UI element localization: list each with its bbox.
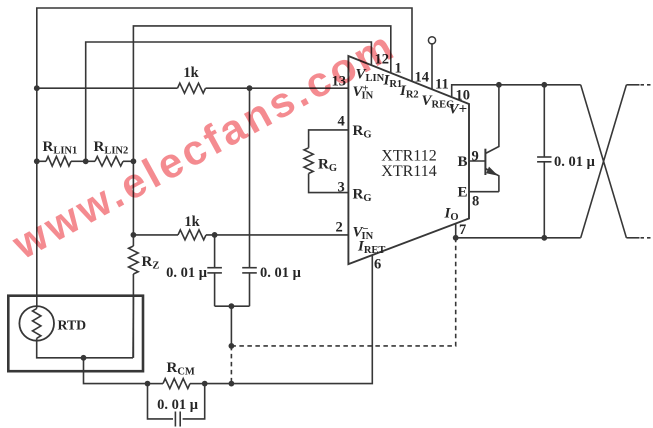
svg-text:14: 14 <box>415 70 430 86</box>
wire RLIN1 leads <box>37 160 46 162</box>
node dashed junction <box>229 343 235 349</box>
node right cap top junction <box>541 82 547 88</box>
svg-text:9: 9 <box>472 149 479 165</box>
resistor RCM <box>163 379 190 389</box>
node RLIN1/RLIN2 junction <box>83 158 89 164</box>
resistor RLIN1 <box>46 157 71 167</box>
wire RZ branch vertical <box>132 161 134 246</box>
wire pin 3 lead <box>309 174 349 193</box>
wire pin 4 lead <box>309 130 349 148</box>
node collector junction <box>496 82 502 88</box>
resistor RG external <box>304 148 313 174</box>
wire RCM leads <box>148 383 164 385</box>
node junction left vertical / 1k line <box>34 85 40 91</box>
wire X-cross diagonal B <box>581 85 627 238</box>
wire pin 11 to terminal <box>431 44 433 89</box>
wire second frame (RLIN2 node to pin 1) <box>133 26 390 161</box>
capacitor C2 0.01u (right) <box>249 88 251 268</box>
wire pin 9 base line <box>469 160 485 162</box>
transistor Q1 collector <box>485 85 499 154</box>
wire pin 7 stub and bottom rail <box>456 224 581 238</box>
wire mid vertical dashed <box>230 346 232 384</box>
wire top-right stub <box>626 84 639 86</box>
node pin7 dashed junction <box>453 235 459 241</box>
op-amp U1 XTR112/XTR114 outline <box>348 56 469 264</box>
svg-text:4: 4 <box>338 114 345 130</box>
wire pin 2 line to IC <box>206 234 348 236</box>
wire RCM line to pin 6 <box>205 255 373 384</box>
node RLIN1 left junction <box>34 158 40 164</box>
svg-text:0. 01 μ: 0. 01 μ <box>157 397 199 413</box>
wire RTD junction down to RCM line <box>84 358 148 384</box>
svg-text:RG: RG <box>353 123 372 141</box>
capacitor C4 0.01u (output) <box>543 85 545 157</box>
resistor RLIN2 <box>95 157 123 167</box>
svg-text:B: B <box>458 154 468 170</box>
svg-text:E: E <box>458 185 468 201</box>
node caps bottom junction <box>229 303 235 309</box>
node RCM-line dashed junction <box>229 381 235 387</box>
transistor Q1 emitter <box>485 169 499 192</box>
wire caps bottom link <box>215 305 250 307</box>
wire RTD bottom to box internal run <box>37 338 133 358</box>
svg-text:XTR112: XTR112 <box>381 148 436 165</box>
svg-text:0. 01 μ: 0. 01 μ <box>260 265 302 281</box>
transistor Q1 base bar <box>484 149 486 175</box>
svg-text:RZ: RZ <box>142 254 160 272</box>
svg-text:XTR114: XTR114 <box>381 163 436 180</box>
wire RLIN2 leads <box>86 160 95 162</box>
svg-text:0. 01 μ: 0. 01 μ <box>554 154 596 170</box>
wire bottom-right stub <box>626 237 639 239</box>
RTD circle <box>19 306 54 341</box>
svg-text:RLIN1: RLIN1 <box>43 139 78 157</box>
wire X-cross diagonal A <box>581 85 627 238</box>
svg-text:IR2: IR2 <box>399 83 419 101</box>
RTD internal zigzag <box>33 309 41 339</box>
node RLIN2 right junction <box>131 158 137 164</box>
svg-text:RLIN2: RLIN2 <box>94 139 129 157</box>
svg-text:RTD: RTD <box>58 318 87 333</box>
wire outer top frame (node to pin 14) <box>37 8 412 306</box>
svg-text:2: 2 <box>336 220 343 236</box>
wire pin 10 stub <box>452 85 581 97</box>
svg-text:RCM: RCM <box>167 360 195 378</box>
wire 1k line to pin 13 <box>206 87 349 89</box>
resistor R2 1k (pin 2) <box>178 230 206 240</box>
wire third frame (RLIN junction to pin 12) <box>86 42 372 161</box>
svg-text:RG: RG <box>353 187 372 205</box>
wire pin 2 line left segment <box>133 234 178 236</box>
wire RTD top lead <box>36 306 38 309</box>
svg-text:11: 11 <box>435 77 449 93</box>
svg-text:1k: 1k <box>183 65 199 81</box>
node pin2-line left junction <box>131 232 137 238</box>
node RTD bottom junction <box>81 355 87 361</box>
node right cap bottom junction <box>541 235 547 241</box>
svg-text:1k: 1k <box>184 214 200 230</box>
terminal VREG open circle <box>428 37 435 44</box>
node junction 1k line / cap2 branch <box>247 85 253 91</box>
svg-text:6: 6 <box>374 257 381 273</box>
wire mid vertical solid <box>230 306 232 346</box>
svg-text:IO: IO <box>444 206 459 224</box>
node pin2 line / cap1 junction <box>212 232 218 238</box>
svg-text:7: 7 <box>459 222 466 238</box>
svg-text:3: 3 <box>338 180 345 196</box>
svg-text:V+: V+ <box>449 102 468 118</box>
resistor R1 1k (top) <box>178 83 206 93</box>
svg-text:8: 8 <box>472 194 479 210</box>
wire dashed horizontal to pin 7 <box>231 239 455 346</box>
svg-text:0. 01 μ: 0. 01 μ <box>166 265 208 281</box>
RTD enclosure box <box>8 296 143 372</box>
transistor Q1 emitter arrow <box>486 167 498 176</box>
resistor RZ <box>129 246 139 274</box>
wire pin 8 emitter line <box>469 191 499 193</box>
svg-text:RG: RG <box>318 157 337 175</box>
wire 1k line left segment <box>37 87 178 89</box>
capacitor C1 0.01u (left) <box>214 235 216 268</box>
node RCM left junction <box>145 381 151 387</box>
capacitor C3 0.01u (below RCM) <box>148 384 174 419</box>
node RCM right junction <box>202 381 208 387</box>
